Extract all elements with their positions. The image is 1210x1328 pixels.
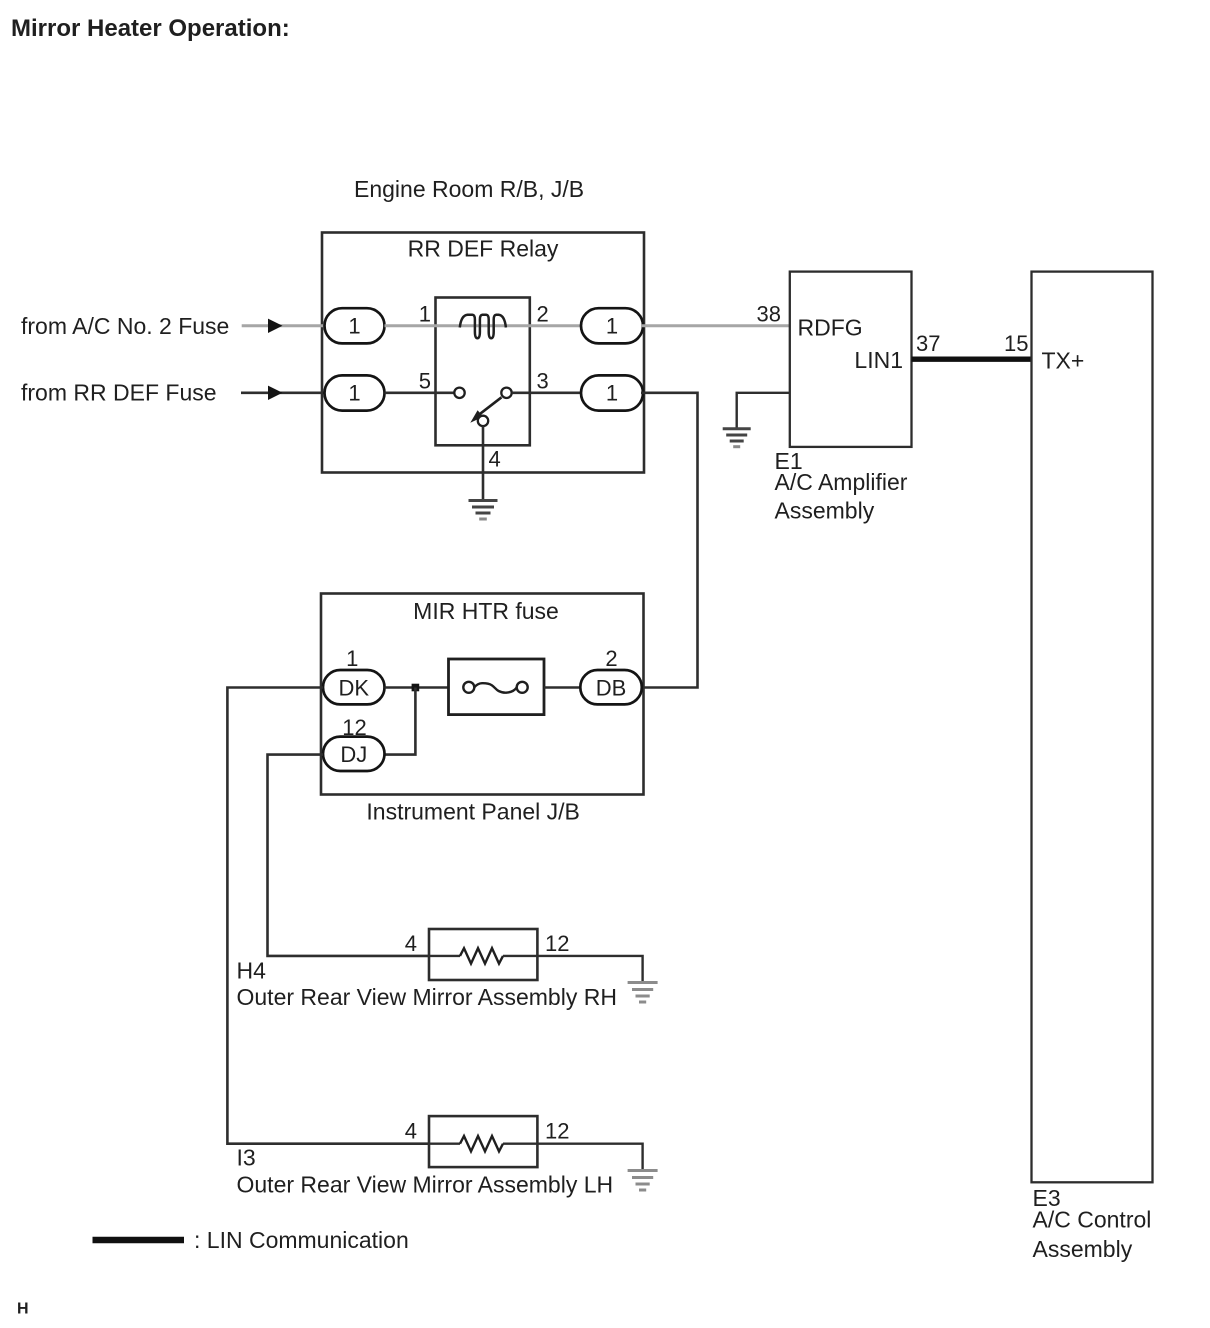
arrow: feed direction A/C No.2 [268, 319, 283, 333]
label: from RR DEF Fuse [21, 380, 217, 406]
resistor: mirror heater LH [429, 1136, 537, 1151]
legend: LIN communication sample line [93, 1237, 185, 1243]
svg-text:A/C Amplifier: A/C Amplifier [775, 469, 908, 495]
mirror heater I3 box [429, 1116, 537, 1167]
label: RR DEF Relay [408, 236, 559, 262]
label: from A/C No. 2 Fuse [21, 313, 229, 339]
wire: E1 ground hook [737, 393, 790, 429]
pin 12 label (DJ) [342, 715, 366, 740]
svg-text:2: 2 [605, 646, 617, 671]
wire: A/C No.2 Fuse feed (gray) [242, 324, 325, 327]
svg-text:3: 3 [537, 369, 549, 394]
pin 2 label (DB) [605, 646, 617, 671]
svg-text:TX+: TX+ [1042, 348, 1085, 374]
svg-text:4: 4 [405, 931, 417, 956]
svg-text:12: 12 [545, 1119, 569, 1144]
connector terminal 1 (right, coil row) [581, 308, 643, 343]
svg-text:1: 1 [606, 381, 618, 406]
pin 37 label [916, 331, 940, 356]
svg-text:Instrument Panel J/B: Instrument Panel J/B [366, 798, 580, 824]
svg-text:38: 38 [757, 302, 781, 327]
pin 38 label [757, 302, 781, 327]
pin 12 label (I3) [545, 1119, 569, 1144]
relay contact: fixed contact 5 [454, 388, 464, 398]
wire: I3 pin12 to ground [537, 1144, 642, 1171]
svg-text:H4: H4 [237, 958, 267, 984]
svg-text:Engine Room R/B, J/B: Engine Room R/B, J/B [354, 176, 584, 202]
label: MIR HTR fuse [413, 598, 559, 624]
svg-text:DK: DK [339, 675, 370, 700]
svg-text:1: 1 [348, 314, 360, 339]
connector terminal DJ [323, 737, 385, 771]
arrow: feed direction RR DEF [268, 386, 283, 400]
svg-text:LIN1: LIN1 [854, 347, 903, 373]
mirror heater H4 box [429, 929, 537, 980]
ground: E1 [723, 429, 751, 447]
wire: H4 pin12 to ground [537, 956, 642, 983]
relay pivot contact 4 [478, 416, 488, 426]
svg-text:H: H [17, 1301, 29, 1318]
wire: coil row through relay (gray) [385, 324, 582, 327]
wire: switch row right segment [512, 391, 581, 394]
svg-text:15: 15 [1004, 331, 1028, 356]
relay contact: fixed contact 3 [501, 388, 511, 398]
label: I3 [237, 1145, 256, 1171]
relay K1: RR DEF Relay inner body box [436, 298, 530, 446]
wire: relay pin3 down to MIR HTR fuse DB [641, 393, 698, 688]
label: Assembly (E3) [1033, 1236, 1133, 1262]
svg-text:RDFG: RDFG [798, 315, 863, 341]
ground: I3 [628, 1171, 658, 1191]
pin 15 label [1004, 331, 1028, 356]
svg-text:Outer Rear View Mirror Assembl: Outer Rear View Mirror Assembly RH [237, 984, 617, 1010]
wire: fuse to DB [544, 686, 580, 689]
resistor: mirror heater RH [429, 948, 537, 963]
svg-text:4: 4 [405, 1119, 417, 1144]
fuse F1: MIR HTR fuse body box [449, 659, 545, 715]
label: E1 [775, 448, 803, 474]
svg-text:Assembly: Assembly [775, 498, 875, 524]
svg-text:1: 1 [348, 381, 360, 406]
wire: DK to mirror LH (long left drop) [227, 688, 429, 1144]
wire: DK to fuse [385, 686, 449, 689]
relay movable blade [470, 397, 501, 423]
fuse element symbol [463, 682, 527, 693]
svg-text:Mirror Heater Operation:: Mirror Heater Operation: [11, 15, 290, 42]
pin 4 label [489, 447, 501, 472]
connector terminal 1 (right, switch row) [581, 375, 643, 410]
svg-text:RR DEF Relay: RR DEF Relay [408, 236, 559, 262]
pin 1 label (relay coil left) [419, 302, 431, 327]
connector terminal DK [323, 670, 385, 704]
svg-text:5: 5 [419, 369, 431, 394]
junction block: Instrument Panel J/B box [321, 594, 644, 795]
title: Mirror Heater Operation: [11, 15, 290, 42]
pin label TX+ [1042, 348, 1085, 374]
label: Outer Rear View Mirror Assembly LH [237, 1171, 614, 1197]
svg-text:Outer Rear View Mirror Assembl: Outer Rear View Mirror Assembly LH [237, 1171, 614, 1197]
svg-text:A/C Control: A/C Control [1033, 1207, 1152, 1233]
svg-text:: LIN Communication: : LIN Communication [194, 1227, 409, 1253]
svg-text:1: 1 [346, 646, 358, 671]
A/C amplifier E1 box [790, 272, 912, 447]
label: Engine Room R/B, J/B [354, 176, 584, 202]
svg-text:from A/C No. 2 Fuse: from A/C No. 2 Fuse [21, 313, 229, 339]
pin 1 label (DK) [346, 646, 358, 671]
pin 4 label (I3) [405, 1119, 417, 1144]
label: H4 [237, 958, 267, 984]
wire: DJ to mirror RH drop [268, 755, 430, 956]
svg-text:1: 1 [606, 314, 618, 339]
wire: relay pin2 to RDFG (gray) [641, 324, 790, 327]
pin 3 label [537, 369, 549, 394]
pin 2 label (relay coil right) [537, 302, 549, 327]
relay coil L1 [460, 315, 506, 339]
pin 5 label [419, 369, 431, 394]
junction block: Engine Room R/B J/B box [322, 233, 644, 473]
label: A/C Amplifier [775, 469, 908, 495]
svg-text:4: 4 [489, 447, 501, 472]
pin label LIN1 [854, 347, 903, 373]
svg-text:1: 1 [419, 302, 431, 327]
label: E3 [1033, 1185, 1061, 1211]
pin label RDFG [798, 315, 863, 341]
connector terminal DB [580, 670, 642, 704]
svg-text:12: 12 [545, 931, 569, 956]
wire: junction down to DJ [385, 688, 416, 755]
ground: H4 [628, 983, 658, 1003]
page marker H [17, 1301, 29, 1318]
pin 12 label (H4) [545, 931, 569, 956]
wire: relay pin4 to ground [482, 426, 485, 500]
svg-text:MIR HTR fuse: MIR HTR fuse [413, 598, 559, 624]
pin 4 label (H4) [405, 931, 417, 956]
connector terminal 1 (left, switch row) [325, 375, 385, 410]
node: junction dot DK/DJ [412, 684, 420, 692]
connector terminal 1 (left, coil row) [325, 308, 385, 343]
wire: switch row left segment [385, 391, 455, 394]
label: Instrument Panel J/B [366, 798, 580, 824]
ground: relay pin4 [469, 501, 498, 520]
svg-text:37: 37 [916, 331, 940, 356]
label: A/C Control [1033, 1207, 1152, 1233]
svg-text:DB: DB [596, 675, 627, 700]
wire: RR DEF Fuse feed [241, 391, 325, 394]
wire: LIN communication LIN1 to TX+ (thick) [912, 357, 1032, 362]
legend label: LIN Communication [194, 1227, 409, 1253]
svg-text:DJ: DJ [340, 742, 367, 767]
label: Assembly [775, 498, 875, 524]
label: Outer Rear View Mirror Assembly RH [237, 984, 617, 1010]
A/C control E3 box [1032, 272, 1153, 1183]
svg-text:I3: I3 [237, 1145, 256, 1171]
svg-text:Assembly: Assembly [1033, 1236, 1133, 1262]
svg-text:2: 2 [537, 302, 549, 327]
svg-text:from RR DEF Fuse: from RR DEF Fuse [21, 380, 217, 406]
